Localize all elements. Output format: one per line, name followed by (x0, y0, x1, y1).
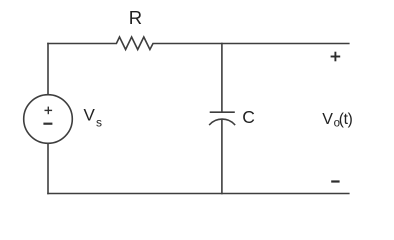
svg-text:V: V (84, 106, 96, 125)
svg-text:(t): (t) (339, 111, 353, 128)
svg-text:V: V (322, 111, 333, 128)
svg-text:s: s (96, 115, 102, 129)
svg-text:C: C (242, 107, 255, 127)
svg-text:R: R (129, 7, 142, 28)
